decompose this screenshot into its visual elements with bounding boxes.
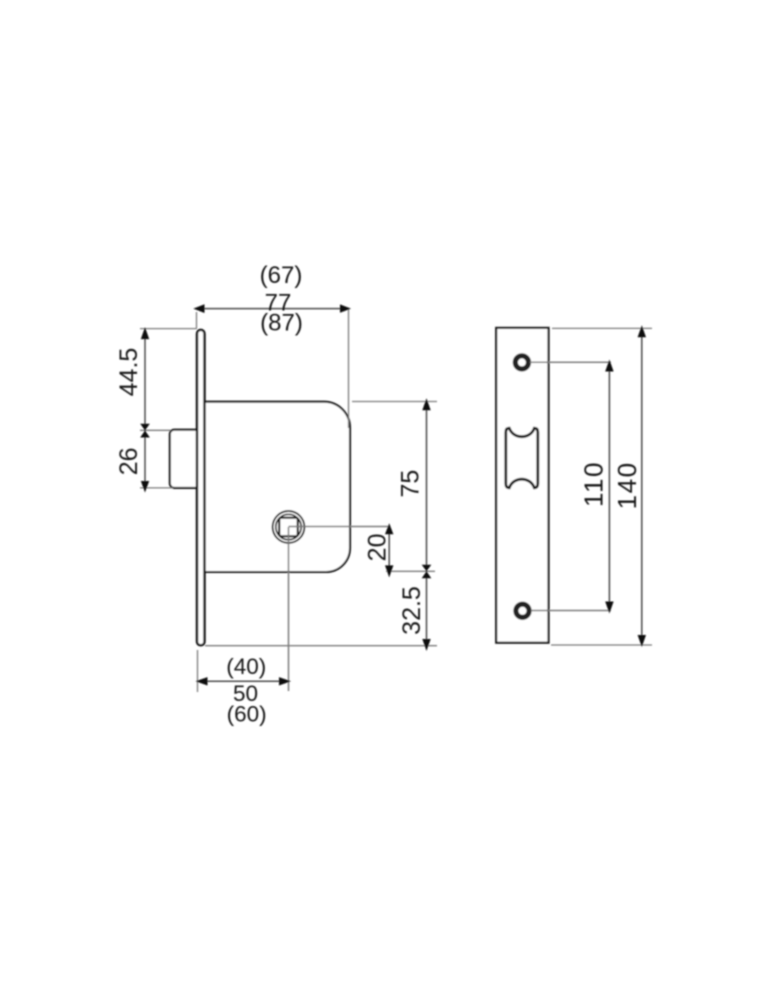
svg-text:20: 20: [363, 533, 391, 561]
svg-text:32.5: 32.5: [398, 586, 426, 635]
svg-text:(87): (87): [260, 310, 303, 337]
svg-text:140: 140: [612, 461, 642, 509]
svg-text:(40): (40): [226, 654, 266, 679]
svg-text:26: 26: [115, 447, 143, 475]
svg-text:(60): (60): [227, 702, 267, 727]
svg-text:44.5: 44.5: [115, 348, 143, 397]
svg-text:(67): (67): [260, 262, 303, 289]
svg-text:75: 75: [397, 470, 425, 498]
svg-text:110: 110: [578, 461, 608, 507]
